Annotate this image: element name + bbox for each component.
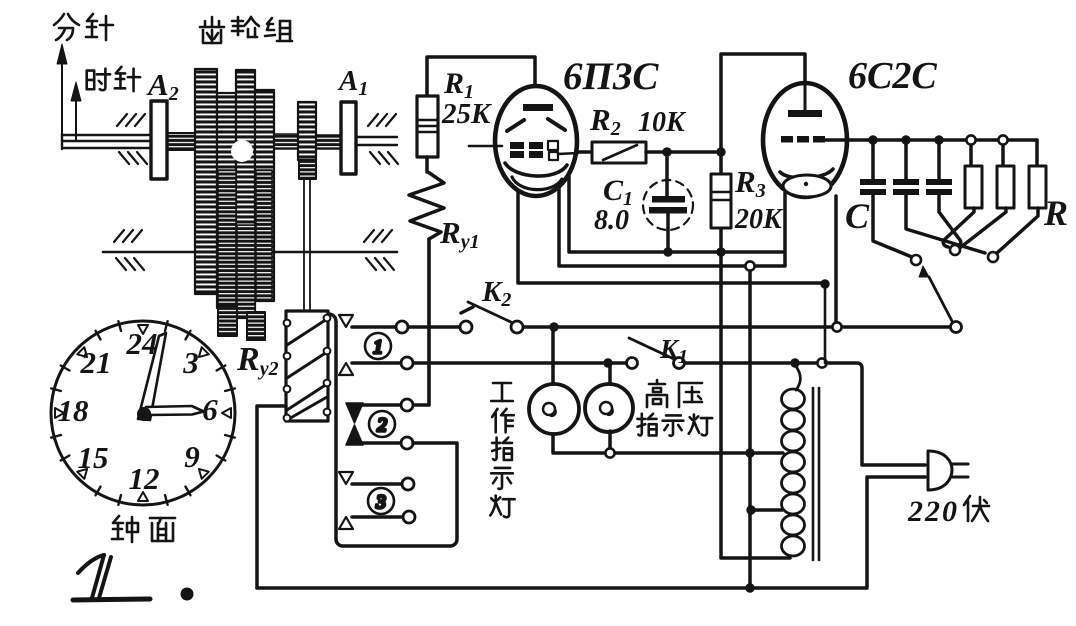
svg-text:C: C xyxy=(845,196,870,236)
svg-text:6П3С: 6П3С xyxy=(563,55,659,98)
svg-text:2: 2 xyxy=(924,495,940,528)
svg-text:3: 3 xyxy=(182,345,199,380)
svg-text:2: 2 xyxy=(907,495,923,528)
svg-text:8.0: 8.0 xyxy=(594,205,629,236)
svg-text:9: 9 xyxy=(184,439,200,474)
svg-text:15: 15 xyxy=(78,440,109,475)
svg-text:1: 1 xyxy=(373,337,383,358)
svg-text:12: 12 xyxy=(129,461,160,496)
svg-text:6С2С: 6С2С xyxy=(848,55,937,97)
svg-text:20K: 20K xyxy=(734,204,784,235)
svg-text:24: 24 xyxy=(126,326,158,361)
svg-text:6: 6 xyxy=(202,392,218,427)
svg-text:R: R xyxy=(1043,193,1068,233)
svg-text:18: 18 xyxy=(58,393,90,428)
svg-text:3: 3 xyxy=(375,492,386,513)
svg-text:2: 2 xyxy=(377,415,387,436)
svg-text:25K: 25K xyxy=(441,98,492,130)
svg-text:21: 21 xyxy=(80,345,112,380)
svg-text:10K: 10K xyxy=(638,107,687,138)
svg-text:0: 0 xyxy=(942,495,957,528)
